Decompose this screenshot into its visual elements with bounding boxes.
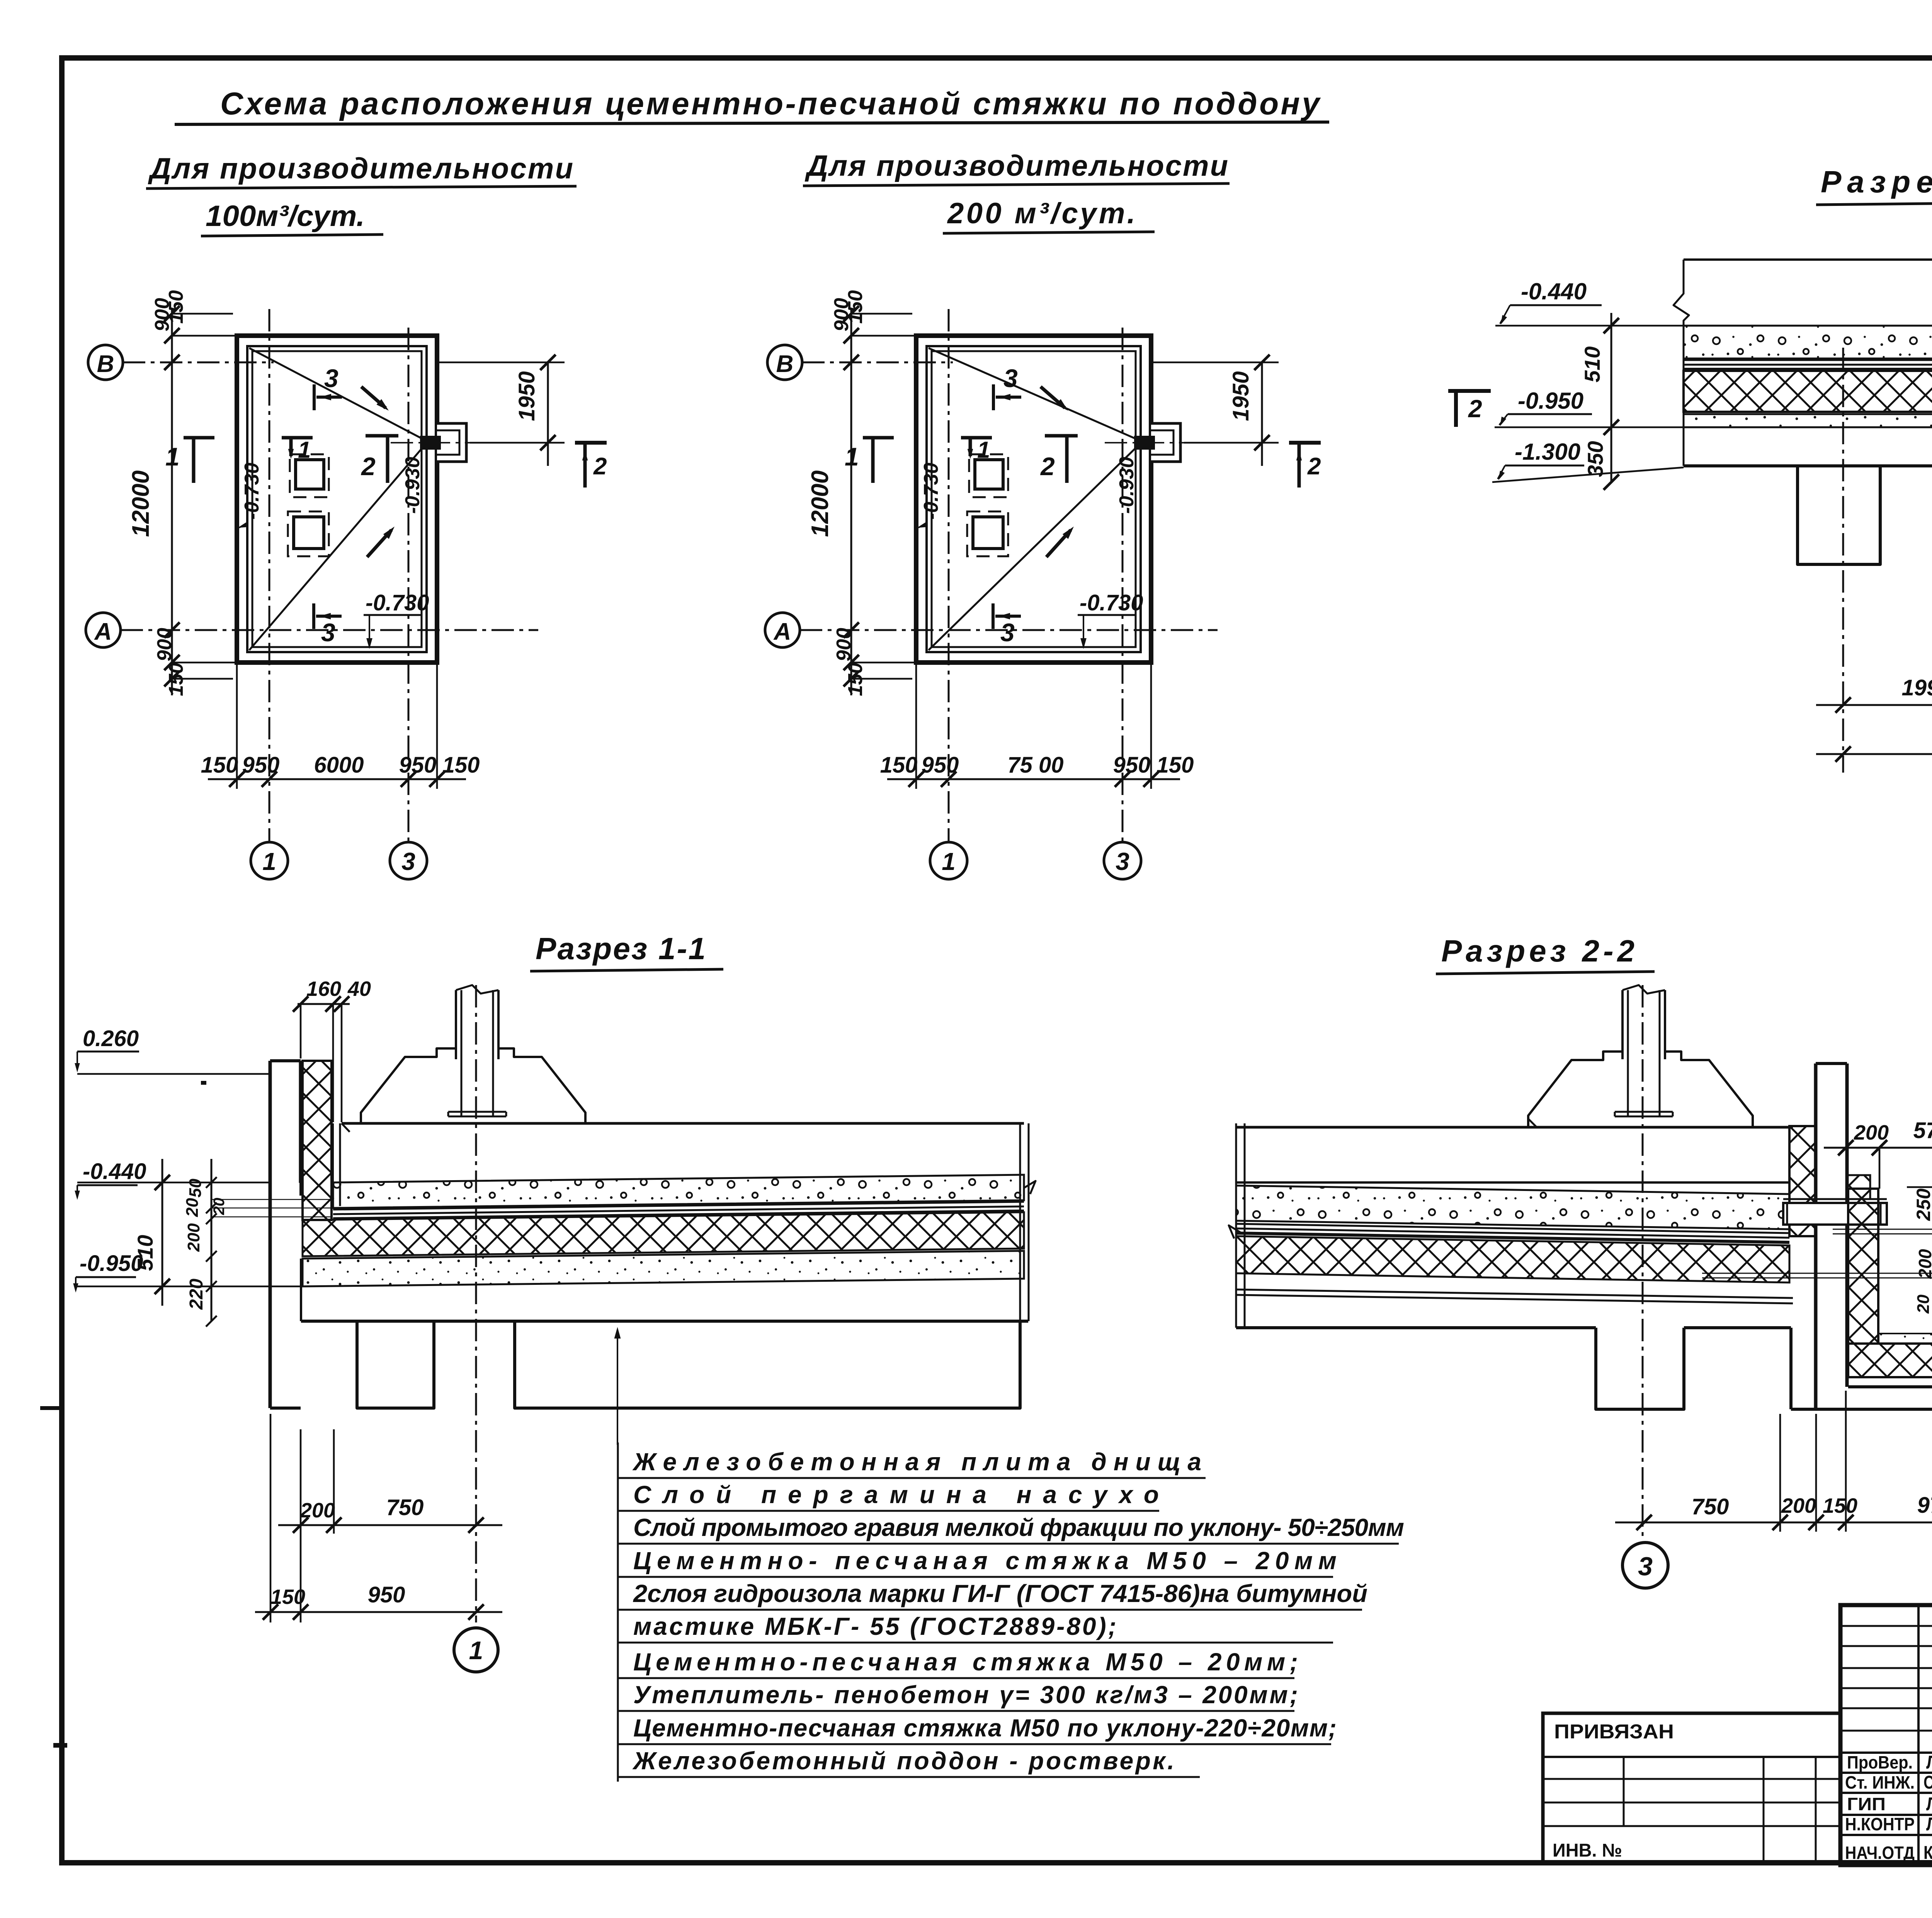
- svg-text:20: 20: [211, 1198, 228, 1216]
- dim row 150 950 (section 1-1): [255, 1611, 502, 1613]
- svg-text:В: В: [97, 351, 114, 377]
- axis 1 line vertical: [269, 309, 270, 842]
- svg-text:0.260: 0.260: [83, 1026, 139, 1051]
- section mark 1 (inside): [282, 436, 313, 440]
- svg-text:150: 150: [165, 663, 187, 696]
- list row 7 underline: [618, 1677, 1294, 1679]
- svg-text:1: 1: [469, 1636, 483, 1665]
- section 1-1 drawing: [73, 977, 1036, 1672]
- svg-text:-0.930: -0.930: [1116, 457, 1138, 514]
- plan inner wall line: [247, 346, 427, 652]
- insulation crosshatch 1-1: [303, 1212, 1024, 1256]
- svg-text:Железобетонная плита днища: Железобетонная плита днища: [632, 1448, 1201, 1476]
- slope diagonal from top-left corner to fitting: [249, 348, 425, 440]
- axis B circle: [88, 345, 123, 380]
- attachment table ПРИВЯЗАН: [1543, 1713, 1840, 1863]
- svg-text:970: 970: [1917, 1493, 1932, 1518]
- small vertical dims 50 20 200 20 220: [211, 1159, 213, 1321]
- slope arrow lower: [367, 530, 391, 557]
- section mark 3 (bottom): [312, 603, 315, 629]
- svg-text:200: 200: [300, 1499, 335, 1522]
- slab lines 2-2: [1236, 1289, 1793, 1298]
- axis A line: [800, 629, 1218, 631]
- svg-text:150: 150: [442, 753, 480, 778]
- list row 1 underline: [618, 1477, 1206, 1479]
- drain fitting on right wall: [1151, 423, 1180, 462]
- pit outer bottom lines: [1848, 1376, 1932, 1378]
- svg-text:В: В: [776, 351, 794, 377]
- svg-text:1: 1: [262, 848, 276, 875]
- left vertical dimension line: [850, 309, 852, 695]
- lower screed band with specks (left part): [1684, 414, 1932, 427]
- floor bands section 2-2 (sloping down to right): [1236, 1181, 1789, 1184]
- plan outer wall rectangle: [237, 336, 437, 663]
- svg-text:1: 1: [298, 437, 311, 463]
- vertical dim 510/350 left of 3-3: [1611, 313, 1612, 482]
- section mark 1 (outside left): [184, 436, 214, 440]
- svg-text:-0.440: -0.440: [1521, 279, 1587, 304]
- bottom dimension line: [887, 778, 1180, 780]
- wall extension lines down to dimension row: [915, 663, 917, 789]
- column shaft 2-2: [1621, 990, 1624, 1059]
- tank wall vertical 2-2: [1814, 1063, 1818, 1409]
- wall bottom 1-1: [270, 1407, 301, 1410]
- svg-text:1: 1: [977, 437, 990, 463]
- svg-text:6000: 6000: [314, 753, 364, 778]
- svg-text:20: 20: [183, 1198, 202, 1217]
- svg-text:12000: 12000: [807, 471, 833, 537]
- floor opening square (lower): [967, 511, 1008, 556]
- section mark 1 (inside): [961, 436, 992, 440]
- svg-text:3: 3: [401, 848, 415, 875]
- svg-text:2: 2: [593, 453, 607, 480]
- waterproofing lines 1-1: [333, 1202, 1024, 1210]
- fold tick left border: [40, 1406, 64, 1410]
- svg-text:ПроВер.: ПроВер.: [1847, 1752, 1913, 1772]
- column centerline 2-2: [1642, 985, 1644, 1541]
- list row 8 underline: [618, 1710, 1294, 1712]
- section mark 3 (top): [992, 384, 995, 410]
- column centerline 1-1: [475, 985, 477, 1622]
- plan bottom edge extension: [172, 662, 237, 664]
- svg-text:Разрез 1-1: Разрез 1-1: [536, 931, 706, 966]
- axis A circle: [86, 613, 121, 647]
- grid circle 3: [1104, 842, 1141, 879]
- svg-text:Утеплитель- пенобетон γ= 300 к: Утеплитель- пенобетон γ= 300 кг/м3 – 200…: [633, 1681, 1298, 1709]
- title block (stamp): [1840, 1605, 1932, 1865]
- insulation crosshatch band (left part): [1684, 371, 1932, 412]
- svg-text:950: 950: [242, 753, 280, 778]
- svg-text:160: 160: [306, 977, 341, 1001]
- svg-text:950: 950: [922, 753, 959, 778]
- floor opening square (lower): [288, 511, 329, 556]
- svg-text:150: 150: [844, 290, 867, 324]
- list row 10 underline: [618, 1776, 1200, 1778]
- svg-text:200 м³/сут.: 200 м³/сут.: [947, 197, 1135, 230]
- svg-text:1950: 1950: [514, 371, 539, 421]
- foundation cup 2-2: [1528, 1052, 1622, 1127]
- pallet ribs below slab 1-1: [357, 1321, 434, 1408]
- axis B line: [802, 362, 953, 364]
- list row 5 underline: [618, 1609, 1362, 1611]
- foundation cup section 1-1: [361, 1048, 456, 1123]
- floor opening square (upper): [969, 454, 1008, 497]
- dim 1950 vertical at right: [547, 362, 549, 466]
- drain fitting on right wall: [437, 423, 466, 462]
- dimension row 2: 1990 1620 390 390 1620: [1816, 704, 1932, 706]
- svg-text:200: 200: [1781, 1494, 1816, 1517]
- svg-text:950: 950: [399, 753, 437, 778]
- svg-text:150: 150: [201, 753, 238, 778]
- slab left edge: [300, 1259, 302, 1321]
- waterproofing lines (left part, step down to trench): [1684, 360, 1932, 441]
- top surface line of pallet: [342, 1122, 361, 1125]
- svg-text:50: 50: [186, 1179, 205, 1198]
- stamp ladder rows: [1840, 1625, 1932, 1627]
- axis 1 line vertical: [948, 309, 950, 842]
- section 3-3 drawing: [1448, 127, 1932, 827]
- leader arrow from spec list to slab: [617, 1330, 618, 1445]
- slope arrow lower: [1046, 530, 1071, 557]
- list row 4 underline: [618, 1576, 1333, 1578]
- svg-text:Ст. ИНЖ.: Ст. ИНЖ.: [1845, 1772, 1915, 1792]
- specification list bottom-left (Железобетонная плита днища): [618, 1442, 1404, 1782]
- section mark 1 (outside left): [863, 436, 894, 440]
- svg-text:150: 150: [844, 663, 867, 696]
- svg-text:150: 150: [165, 290, 187, 324]
- floor bands section 1-1: [333, 1175, 1024, 1208]
- svg-text:150: 150: [270, 1585, 305, 1609]
- waterproofing lines 2-2: [1236, 1224, 1789, 1233]
- axis A circle: [765, 613, 800, 647]
- plan top edge extension to dim line: [851, 335, 916, 337]
- dim row 200 750 (section 1-1): [278, 1524, 502, 1526]
- svg-text:Слой промытого гравия мелкой ф: Слой промытого гравия мелкой фракции по …: [633, 1514, 1404, 1541]
- svg-text:950: 950: [368, 1582, 405, 1607]
- svg-text:Н.КОНТР: Н.КОНТР: [1845, 1814, 1915, 1834]
- svg-text:20: 20: [1914, 1295, 1932, 1314]
- left break edge 2-2: [1235, 1123, 1237, 1328]
- svg-text:Разрез 2-2: Разрез 2-2: [1441, 934, 1634, 968]
- svg-text:КРАСАВИН: КРАСАВИН: [1923, 1843, 1932, 1863]
- svg-text:Схема расположения цементно: Схема расположения цементно-песчаной стя…: [220, 86, 1321, 121]
- svg-text:200: 200: [1915, 1249, 1932, 1279]
- svg-text:750: 750: [386, 1495, 424, 1520]
- grid circle 1: [251, 842, 288, 879]
- svg-text:2: 2: [361, 452, 376, 481]
- slope arrow upper: [1041, 387, 1065, 408]
- svg-text:-0.730: -0.730: [920, 462, 942, 520]
- slope diagonal from bottom-left corner to fitting: [249, 444, 425, 650]
- svg-text:3: 3: [1638, 1552, 1653, 1581]
- fitting centerline: [391, 442, 561, 443]
- extension lines bottom 2-2: [1779, 1414, 1781, 1532]
- list row 2 underline: [618, 1510, 1159, 1512]
- plan bottom edge extension: [851, 662, 916, 664]
- svg-text:900: 900: [153, 628, 176, 661]
- svg-text:220: 220: [186, 1279, 207, 1310]
- svg-text:-1.300: -1.300: [1515, 439, 1580, 465]
- stamp signature rows: [1840, 1752, 1932, 1754]
- left border of list: [617, 1442, 619, 1782]
- svg-text:250: 250: [1913, 1188, 1932, 1221]
- svg-text:ЛОУЦКЕР: ЛОУЦКЕР: [1926, 1794, 1932, 1814]
- svg-text:3: 3: [1003, 364, 1018, 392]
- left rib centerline 3-3: [1842, 348, 1844, 773]
- section mark 3 (top): [313, 384, 316, 410]
- svg-text:2слоя гидроизола марки ГИ-Г: 2слоя гидроизола марки ГИ-Г (ГОСТ 7415-8…: [633, 1580, 1367, 1607]
- list row 3 underline: [618, 1543, 1399, 1545]
- section mark 2 (outside right): [575, 441, 607, 445]
- svg-text:75 00: 75 00: [1007, 753, 1063, 778]
- section mark 2 (inside): [1045, 434, 1078, 438]
- svg-text:-0.930: -0.930: [401, 457, 424, 514]
- insulation strip on wall: [303, 1061, 332, 1220]
- gap lines 40mm: [332, 1123, 334, 1206]
- slope arrow upper: [361, 387, 386, 408]
- section mark 3 (bottom): [992, 603, 995, 629]
- slab bottom line 1-1: [301, 1320, 1028, 1323]
- svg-text:ЛОУЦКЕР: ЛОУЦКЕР: [1926, 1814, 1932, 1835]
- svg-text:2: 2: [1307, 453, 1321, 480]
- section 2-2 drawing: [1229, 985, 1932, 1588]
- pipe leader thin lines: [1833, 1229, 1932, 1230]
- svg-text:Железобетонный поддон - ро: Железобетонный поддон - ростверк.: [632, 1747, 1174, 1775]
- svg-text:А: А: [773, 618, 791, 645]
- section mark 2 (outside right): [1289, 441, 1321, 445]
- svg-text:А: А: [94, 618, 112, 645]
- svg-text:40: 40: [347, 977, 371, 1001]
- left cut edge vertical with break: [1673, 260, 1689, 466]
- slab bottom and ribs 2-2: [1236, 1326, 1596, 1329]
- svg-text:-0.730: -0.730: [241, 462, 263, 520]
- fitting centerline: [1105, 442, 1275, 443]
- bottom dim row 750 200 150 970: [1615, 1522, 1932, 1524]
- axis 3 line vertical: [408, 328, 410, 842]
- svg-text:950: 950: [1113, 753, 1151, 778]
- axis B circle: [767, 345, 802, 380]
- plan outer wall rectangle: [916, 336, 1151, 663]
- list row 6 underline: [618, 1642, 1333, 1644]
- plan top edge extension to dim line: [172, 335, 237, 337]
- svg-text:3: 3: [1000, 618, 1015, 647]
- svg-text:2: 2: [1040, 452, 1055, 481]
- pit left wall crosshatch 2-2: [1848, 1189, 1878, 1344]
- outlet pipe through wall 2-2: [1783, 1203, 1887, 1225]
- surface bevel near cup 2-2: [1528, 1119, 1537, 1127]
- plan inner wall line: [927, 346, 1141, 652]
- svg-text:-0.730: -0.730: [1080, 590, 1143, 615]
- extension thin lines to wall: [211, 1199, 332, 1200]
- vertical dim 510 (section 1-1): [162, 1159, 163, 1306]
- slab bottom line (left part): [1684, 464, 1932, 467]
- svg-text:-0.950: -0.950: [1518, 388, 1583, 414]
- svg-text:510: 510: [1580, 347, 1604, 382]
- svg-text:1990: 1990: [1901, 675, 1932, 700]
- insulation crosshatch 2-2: [1236, 1236, 1789, 1283]
- svg-text:900: 900: [833, 628, 855, 661]
- svg-text:150: 150: [1823, 1494, 1857, 1517]
- svg-text:1: 1: [845, 442, 859, 471]
- surface bevel near cup: [342, 1123, 350, 1132]
- tank wall section 1-1: [269, 1061, 272, 1408]
- svg-text:510: 510: [133, 1235, 157, 1271]
- svg-text:1950: 1950: [1228, 371, 1253, 421]
- wall extension lines down to dimension row: [236, 663, 238, 789]
- dim 1950 vertical at right: [1261, 362, 1263, 466]
- slab rib (left): [1798, 466, 1880, 564]
- top surface line 2-2: [1236, 1126, 1537, 1129]
- stamp vertical lines left table: [1917, 1605, 1920, 1865]
- svg-text:3: 3: [324, 364, 338, 392]
- svg-text:мастике МБК-Г- 55 (ГОСТ2889-: мастике МБК-Г- 55 (ГОСТ2889-80);: [633, 1612, 1116, 1640]
- dim 160 40 above wall: [298, 1003, 350, 1005]
- column shaft section 1-1: [455, 990, 457, 1059]
- svg-text:2: 2: [1468, 395, 1482, 423]
- svg-text:ИНВ. №: ИНВ. №: [1553, 1840, 1622, 1861]
- slope diagonal from bottom-left corner to fitting: [929, 444, 1139, 650]
- svg-text:12000: 12000: [128, 471, 154, 537]
- grid circle 1: [930, 842, 967, 879]
- svg-text:3: 3: [321, 618, 335, 647]
- left vertical dimension line: [171, 309, 173, 695]
- axis B line: [123, 362, 274, 364]
- section symbol T2 left of 3-3: [1448, 389, 1491, 393]
- insulation patch right of wall top: [1847, 1175, 1870, 1199]
- svg-text:СМИРНОВА: СМИРНОВА: [1923, 1772, 1932, 1793]
- svg-text:150: 150: [1156, 753, 1194, 778]
- grid circle 3 below section 2-2: [1622, 1543, 1668, 1588]
- svg-text:ГИП: ГИП: [1847, 1794, 1886, 1814]
- right break edge 1-1: [1019, 1123, 1021, 1321]
- svg-text:Цементно-песчаная стяжка М50: Цементно-песчаная стяжка М50 по уклону-2…: [633, 1714, 1337, 1742]
- concrete screed band with dots (left part): [1684, 326, 1932, 358]
- insulation strip left of wall 2-2: [1789, 1126, 1816, 1236]
- svg-text:-0.440: -0.440: [83, 1159, 146, 1184]
- plate bottom right of tooth: [1789, 1328, 1793, 1409]
- svg-text:3: 3: [1116, 848, 1129, 875]
- top boundary line: [1684, 258, 1932, 261]
- svg-text:ПРИВЯЗАН: ПРИВЯЗАН: [1554, 1721, 1674, 1743]
- section mark 2 (inside): [366, 434, 398, 438]
- svg-text:НАЧ.ОТД: НАЧ.ОТД: [1845, 1843, 1915, 1863]
- bottom dimension line: [208, 778, 466, 780]
- grid circle 3: [390, 842, 427, 879]
- svg-text:750: 750: [1692, 1494, 1729, 1519]
- grid circle 1 below section 1-1: [454, 1628, 498, 1672]
- svg-text:1: 1: [165, 442, 180, 471]
- svg-text:350: 350: [1583, 441, 1607, 477]
- svg-text:150: 150: [880, 753, 918, 778]
- dimension row 3: 3000: [1816, 753, 1932, 755]
- svg-text:570: 570: [1913, 1118, 1932, 1143]
- svg-text:200: 200: [184, 1223, 203, 1252]
- slope diagonal from top-left corner to fitting: [929, 348, 1139, 440]
- svg-text:-0.730: -0.730: [366, 590, 429, 615]
- pit floor screed with specks: [1878, 1334, 1932, 1344]
- svg-text:200: 200: [1854, 1121, 1889, 1144]
- lower screed with specks 1-1: [303, 1251, 1024, 1286]
- svg-text:ЛОУЦКЕР: ЛОУЦКЕР: [1926, 1752, 1932, 1773]
- svg-text:1: 1: [942, 848, 956, 875]
- floor opening square (upper): [290, 454, 329, 497]
- list row 9 underline: [618, 1743, 1331, 1745]
- top dims 200 570 200 (pit): [1824, 1147, 1932, 1149]
- axis A line: [121, 629, 538, 631]
- svg-text:100м³/сут.: 100м³/сут.: [206, 200, 365, 233]
- pit floor crosshatch 2-2: [1848, 1344, 1932, 1377]
- axis 3 line vertical: [1122, 328, 1124, 842]
